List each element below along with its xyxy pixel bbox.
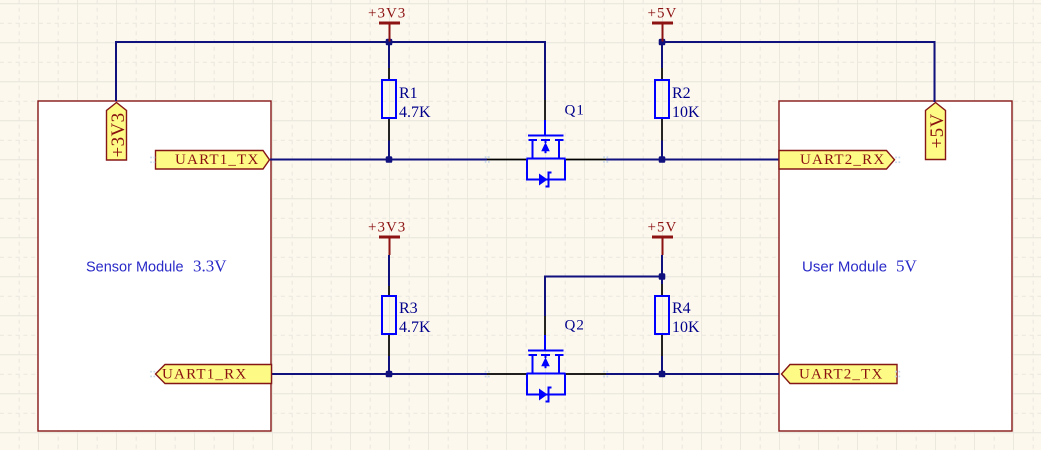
svg-text:10K: 10K [672, 104, 700, 121]
svg-text:+5V: +5V [648, 6, 678, 22]
svg-text:5V: 5V [896, 257, 918, 276]
svg-text:+5V: +5V [927, 113, 948, 148]
svg-text:UART1_RX: UART1_RX [162, 367, 247, 383]
svg-text:4.7K: 4.7K [399, 319, 431, 336]
svg-text:4.7K: 4.7K [399, 104, 431, 121]
svg-text:UART1_TX: UART1_TX [175, 152, 260, 168]
svg-text:+5V: +5V [648, 220, 678, 236]
svg-text:Q1: Q1 [565, 103, 585, 119]
svg-text:R4: R4 [672, 300, 691, 317]
svg-text:R1: R1 [399, 85, 418, 102]
svg-text:UART2_RX: UART2_RX [800, 152, 885, 168]
svg-text:UART2_TX: UART2_TX [799, 367, 884, 383]
svg-text:10K: 10K [672, 319, 700, 336]
svg-text:+3V3: +3V3 [368, 6, 406, 22]
svg-text:R2: R2 [672, 85, 691, 102]
svg-text:+3V3: +3V3 [108, 112, 129, 157]
svg-text:User Module: User Module [802, 259, 887, 276]
svg-text:3.3V: 3.3V [193, 257, 227, 276]
svg-text:+3V3: +3V3 [368, 220, 406, 236]
svg-text:Q2: Q2 [565, 318, 585, 334]
svg-text:R3: R3 [399, 300, 418, 317]
svg-text:Sensor Module: Sensor Module [86, 260, 184, 276]
